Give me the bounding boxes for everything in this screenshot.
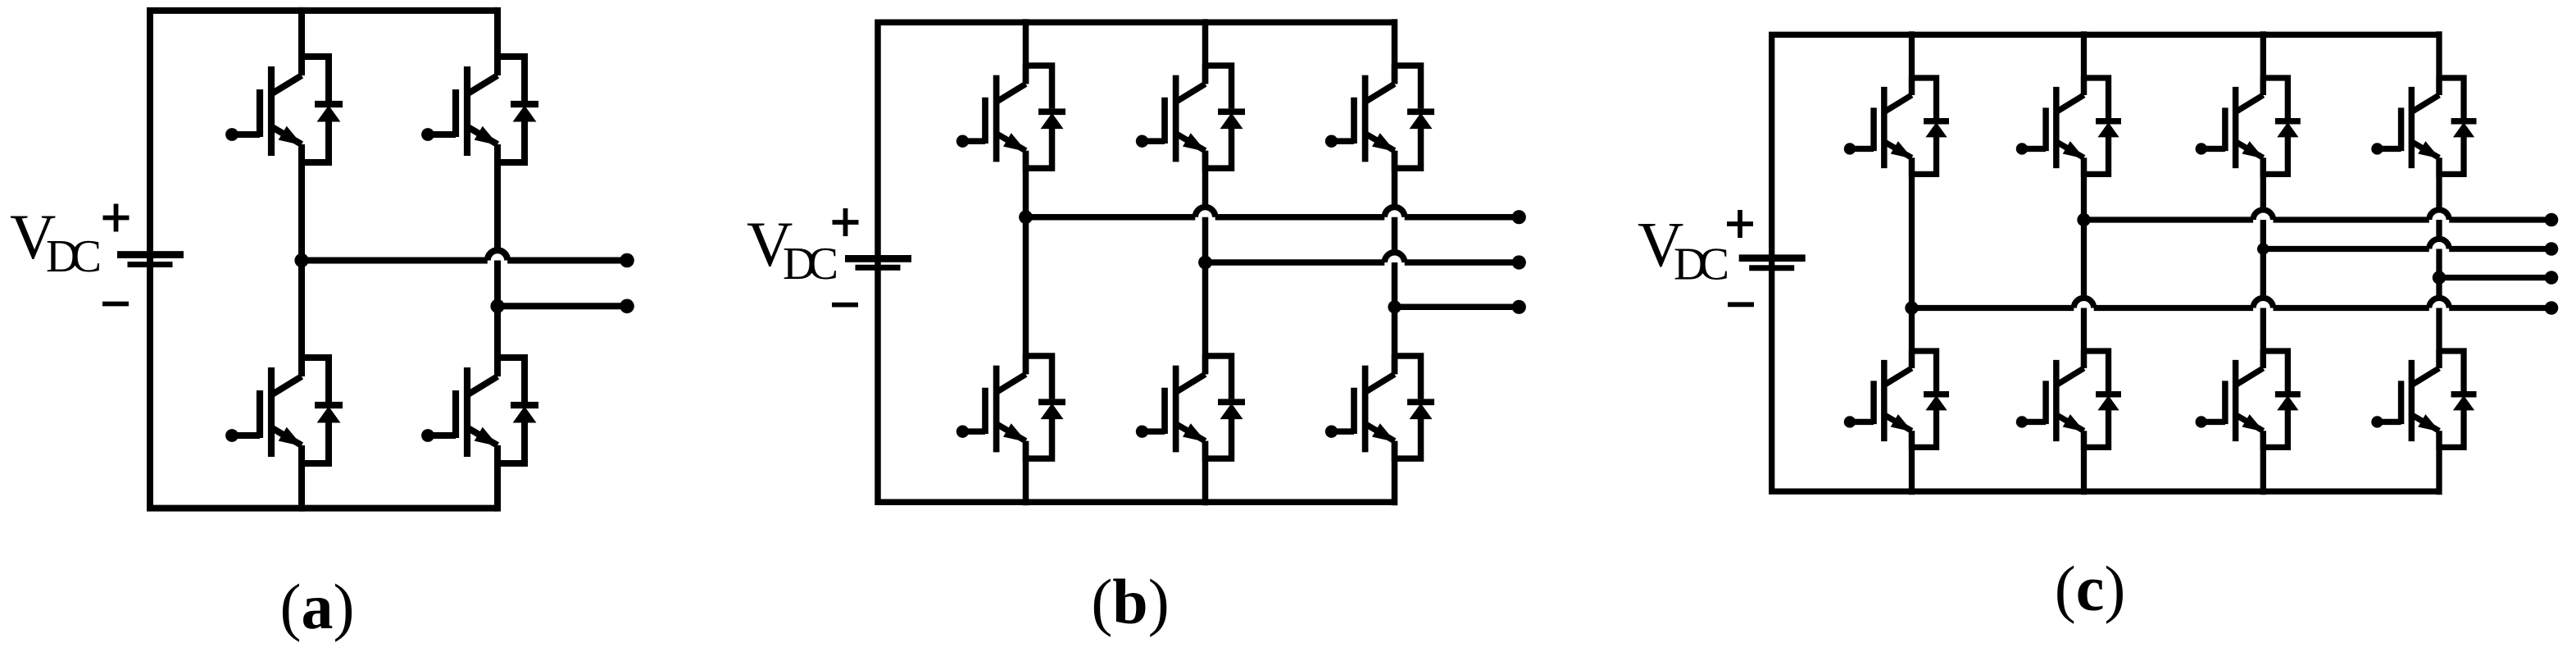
wire a output phase 2 from leg2 midpoint	[497, 303, 627, 309]
transistor Q1 with antiparallel diode D1 (a top-left IGBT)	[225, 55, 343, 162]
minus sign of battery c	[1728, 302, 1754, 307]
node c leg3 midpoint junction	[2257, 243, 2269, 255]
wire circuit a DC bus frame (top bus, left rail, bottom bus)	[150, 11, 497, 508]
wire c leg4 midpoint vertical	[2436, 157, 2442, 368]
node a output terminal 2	[620, 299, 634, 314]
wire b leg2 emitter stub	[1202, 441, 1209, 506]
wire c leg1 midpoint vertical	[1909, 157, 1915, 368]
wire c output row3 from leg4 midpoint	[2439, 275, 2551, 280]
wire b output phase A from leg1 (hops legs 2,3)	[1026, 207, 1520, 217]
transistor Q3 with antiparallel diode (b leg2 top IGBT)	[1136, 64, 1245, 168]
node c leg1 midpoint junction	[1905, 301, 1918, 314]
node b leg1 midpoint junction	[1019, 210, 1033, 224]
wire b leg2 midpoint vertical	[1202, 151, 1209, 375]
wire c output row2 from leg3 midpoint (hops leg 4)	[2263, 239, 2551, 248]
transistor Q2 with antiparallel diode (c leg1 bottom IGBT)	[1844, 349, 1949, 447]
transistor Q5 with antiparallel diode (b leg3 top IGBT)	[1325, 64, 1434, 168]
battery VDC source of circuit c	[1739, 258, 1806, 268]
wire b leg1 emitter stub	[1023, 441, 1029, 506]
wire b leg3 emitter stub	[1392, 441, 1398, 506]
transistor Q6 with antiparallel diode (c leg3 bottom IGBT)	[2196, 349, 2301, 447]
node a output terminal 1	[620, 253, 634, 268]
wire b leg3 midpoint vertical	[1392, 151, 1398, 375]
wire c leg1 emitter stub	[1909, 431, 1915, 495]
wire b leg2 collector stub	[1202, 19, 1209, 84]
plus sign of battery a	[103, 204, 129, 232]
node c leg2 midpoint junction	[2077, 213, 2090, 226]
wire c output row4 (neutral) from leg1 midpoint (hops legs 2,3,4)	[1912, 298, 2552, 308]
wire c leg2 collector stub	[2081, 31, 2087, 95]
svg-text:DC: DC	[46, 231, 102, 282]
battery VDC source of circuit b	[845, 258, 911, 267]
node c leg4 midpoint junction	[2433, 271, 2446, 284]
minus sign of battery a	[102, 302, 129, 307]
node b leg2 midpoint junction	[1198, 256, 1212, 270]
wire c leg3 collector stub	[2260, 31, 2266, 95]
wire c leg4 collector stub	[2436, 31, 2442, 95]
battery VDC source of circuit a	[117, 255, 184, 265]
wire c leg3 emitter stub	[2260, 431, 2266, 495]
plus sign of battery b	[833, 208, 859, 236]
node b phase B terminal	[1512, 255, 1526, 269]
transistor Q1 with antiparallel diode (c leg1 top IGBT)	[1844, 76, 1949, 174]
wire c leg1 collector stub	[1909, 31, 1915, 95]
plus sign of battery c	[1727, 210, 1753, 238]
wire a output phase 1 from leg1 midpoint (hops leg2)	[302, 250, 627, 260]
wire b leg1 midpoint vertical	[1023, 151, 1029, 375]
transistor Q2 with antiparallel diode D2 (a bottom-left IGBT)	[225, 356, 343, 463]
svg-text:DC: DC	[1674, 239, 1729, 290]
wire b output phase B from leg2 (hops leg 3)	[1206, 253, 1520, 262]
transistor Q5 with antiparallel diode (c leg3 top IGBT)	[2196, 76, 2301, 174]
wire c output row1 from leg2 midpoint (hops legs 3,4)	[2084, 210, 2552, 220]
wire c leg3 midpoint vertical	[2260, 157, 2266, 368]
wire circuit b DC bus frame (top bus, left rail, bottom bus)	[878, 22, 1395, 502]
wire a leg2 collector stub Q3	[494, 7, 501, 75]
node c output terminal 2	[2545, 242, 2559, 256]
transistor Q4 with antiparallel diode D4 (a bottom-right IGBT)	[421, 356, 538, 463]
node b phase C terminal	[1512, 300, 1526, 314]
node b leg3 midpoint junction	[1388, 300, 1401, 313]
transistor Q4 with antiparallel diode (c leg2 bottom IGBT)	[2016, 349, 2121, 447]
node b phase A terminal	[1512, 210, 1526, 224]
transistor Q7 with antiparallel diode (c leg4 top IGBT)	[2371, 76, 2476, 174]
transistor Q8 with antiparallel diode (c leg4 bottom IGBT)	[2371, 349, 2476, 447]
svg-text:(c): (c)	[2055, 553, 2126, 624]
wire a leg2 midpoint vertical	[494, 144, 501, 376]
transistor Q4 with antiparallel diode (b leg2 bottom IGBT)	[1136, 354, 1245, 458]
wire b leg3 collector stub	[1392, 19, 1398, 84]
node c output terminal 3	[2545, 271, 2559, 285]
node a leg2 midpoint junction	[490, 299, 504, 313]
node c output terminal 4	[2545, 301, 2559, 315]
minus sign of battery b	[832, 303, 858, 308]
wire b output phase C from leg3	[1395, 304, 1520, 311]
wire b leg1 collector stub	[1023, 19, 1029, 84]
wire c leg2 emitter stub	[2081, 431, 2087, 495]
transistor Q3 with antiparallel diode (c leg2 top IGBT)	[2016, 76, 2121, 174]
transistor Q2 with antiparallel diode (b leg1 bottom IGBT)	[956, 354, 1065, 458]
wire a leg2 emitter stub Q4	[494, 445, 501, 512]
node a leg1 midpoint junction	[294, 253, 308, 267]
wire circuit c DC bus frame (top bus, left rail, bottom bus)	[1772, 34, 2439, 491]
svg-text:(b): (b)	[1091, 566, 1169, 637]
transistor Q6 with antiparallel diode (b leg3 bottom IGBT)	[1325, 354, 1434, 458]
wire c leg4 emitter stub	[2436, 431, 2442, 495]
transistor Q3 with antiparallel diode D3 (a top-right IGBT)	[421, 55, 538, 162]
wire a leg1 midpoint vertical	[298, 144, 305, 376]
svg-text:(a): (a)	[280, 571, 355, 642]
svg-text:DC: DC	[783, 239, 838, 290]
wire a leg1 collector stub Q1	[298, 7, 305, 75]
transistor Q1 with antiparallel diode (b leg1 top IGBT)	[956, 64, 1065, 168]
wire a leg1 emitter stub Q2	[298, 445, 305, 512]
node c output terminal 1	[2545, 213, 2559, 227]
wire c leg2 midpoint vertical	[2081, 157, 2087, 368]
